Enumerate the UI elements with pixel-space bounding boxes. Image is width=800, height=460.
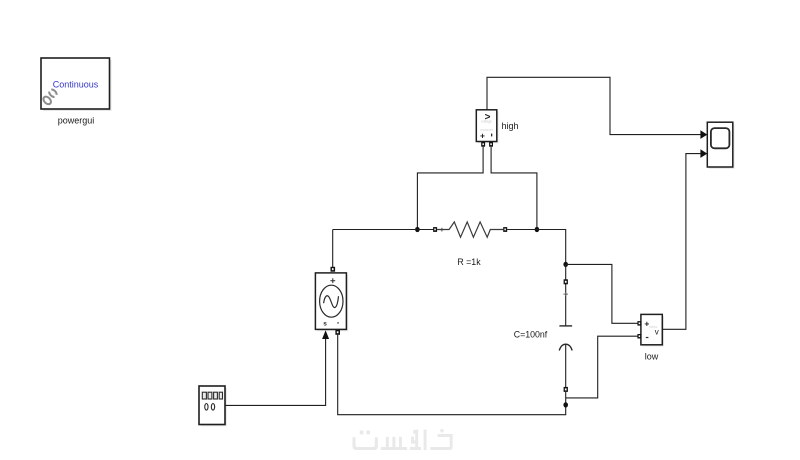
source signal input arrow — [322, 330, 329, 339]
source - port — [335, 330, 340, 335]
svg-text:s: s — [323, 321, 327, 328]
powergui block — [41, 58, 112, 111]
svg-text:Continuous: Continuous — [53, 80, 99, 90]
low + port — [637, 321, 641, 326]
scope input arrow 1 — [700, 130, 707, 139]
port + of high — [481, 142, 485, 147]
junction node cap bottom — [563, 402, 568, 407]
rail left segment — [333, 229, 434, 231]
source top port — [331, 267, 336, 272]
port - of high — [489, 142, 493, 147]
capacitor plates — [559, 326, 572, 351]
wire rail down to source — [332, 230, 334, 268]
signal builder block — [199, 386, 227, 426]
wire source - to bottom rail to cap bottom — [338, 335, 566, 415]
wire high output to scope input1 — [487, 77, 701, 134]
svg-text:high: high — [502, 121, 519, 131]
wire branch to low - input — [566, 336, 638, 398]
AC voltage source block — [315, 273, 348, 331]
wire high + to rail — [417, 147, 483, 230]
svg-text:+: + — [480, 130, 485, 140]
voltage measurement U-high — [476, 110, 498, 143]
capacitor top measurement port — [564, 279, 568, 284]
capacitor polarity + — [564, 292, 568, 296]
wire high - to rail — [491, 147, 537, 230]
voltage measurement U-low — [641, 314, 664, 346]
svg-text:low: low — [645, 351, 659, 361]
svg-text:C=100nf: C=100nf — [514, 329, 548, 339]
resistor R zigzag — [437, 222, 503, 237]
wire low output to scope input2 — [662, 154, 701, 330]
resistor right port — [503, 227, 507, 232]
svg-text:voltage: voltage — [481, 120, 492, 124]
junction node cap top — [563, 262, 568, 267]
capacitor bottom lead — [565, 345, 567, 387]
capacitor bottom measurement port — [564, 387, 568, 392]
scope input arrow 2 — [700, 149, 707, 158]
svg-text:R =1k: R =1k — [457, 257, 481, 267]
wire signal builder to source s input — [225, 339, 326, 405]
watermark khamsat — [353, 428, 453, 450]
resistor polarity + — [440, 228, 444, 232]
capacitor C top lead — [565, 264, 567, 326]
svg-text:powergui: powergui — [58, 116, 95, 126]
scope block — [707, 122, 734, 169]
junction node left — [415, 227, 420, 232]
rail right segment to cap corner — [507, 230, 566, 265]
resistor left port — [433, 227, 437, 232]
junction node right — [535, 227, 540, 232]
svg-text:meas: meas — [649, 325, 658, 329]
low - port — [637, 334, 641, 339]
wire cap top to low + input — [566, 264, 638, 323]
